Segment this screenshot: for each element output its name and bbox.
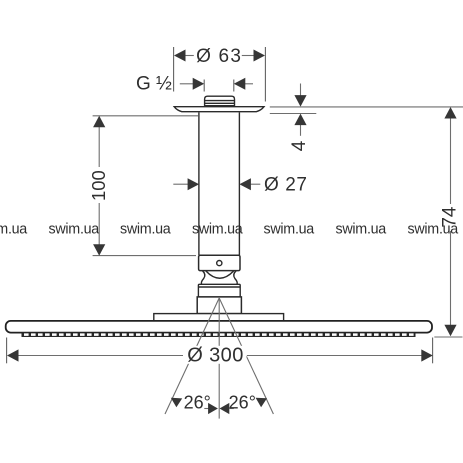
- angle 26 left inner arrow: [208, 403, 218, 414]
- svg-text:swim.ua: swim.ua: [0, 222, 27, 238]
- svg-text:Ø 27: Ø 27: [264, 175, 308, 196]
- joint collar: [198, 284, 240, 297]
- ceiling plate: [174, 107, 264, 112]
- riser pipe: [199, 112, 240, 255]
- dimension Ø63 extension line right: [264, 47, 266, 102]
- svg-text:74: 74: [439, 206, 460, 228]
- dimension Ø63 label: [196, 46, 242, 67]
- spray centre line: [218, 298, 220, 419]
- svg-text:swim.ua: swim.ua: [120, 222, 171, 238]
- svg-text:4: 4: [289, 140, 310, 151]
- dimension 74 line + arrows: [444, 107, 456, 336]
- svg-text:26°: 26°: [229, 392, 256, 412]
- dimension G1/2 tick left: [203, 80, 205, 92]
- dimension 4 extension line long (plate top): [270, 106, 463, 108]
- head mounting plate: [154, 314, 284, 322]
- thread connector stub: [204, 96, 235, 107]
- head connector box: [197, 297, 241, 314]
- dimension 100 line + arrows: [93, 116, 105, 256]
- svg-text:G ½: G ½: [136, 74, 172, 95]
- dimension Ø300 extension line left: [6, 338, 8, 364]
- shower head disc: [6, 321, 432, 333]
- svg-text:swim.ua: swim.ua: [192, 222, 243, 238]
- dimension Ø300 label: [186, 344, 247, 366]
- ball joint: [201, 271, 237, 285]
- angle 26 right leader stub: [229, 408, 234, 410]
- pipe nut box: [199, 255, 240, 270]
- dimension Ø27 arrow right: [239, 178, 260, 190]
- dimension Ø27 arrow left: [173, 178, 199, 190]
- dimension G1/2 arrow right: [234, 78, 253, 90]
- dimension G1/2 arrow left: [180, 78, 204, 90]
- dimension 100 extension line top: [93, 115, 198, 117]
- dimension 4 upper arrow: [294, 84, 306, 107]
- nut screw hole: [217, 261, 222, 266]
- dimension 4 extension line short (plate rim bottom): [270, 113, 317, 115]
- dimension Ø63 extension line left: [173, 47, 175, 92]
- dimension 74 label: [439, 206, 460, 228]
- svg-text:Ø 300: Ø 300: [187, 344, 243, 366]
- dimension G1/2 label: [136, 74, 172, 95]
- angle 26 right outer arrow: [256, 398, 267, 408]
- dimension Ø27 label: [264, 175, 308, 196]
- svg-text:Ø 63: Ø 63: [196, 46, 242, 67]
- svg-text:100: 100: [88, 170, 109, 201]
- angle 26 left outer arrow: [171, 398, 182, 408]
- spray angle line left: [165, 298, 219, 414]
- angle 26 right inner arrow: [220, 403, 230, 414]
- dimension 100 extension line bottom: [93, 255, 196, 257]
- angle 26 left leader stub: [204, 408, 208, 410]
- nozzle face strip: [22, 332, 416, 337]
- spray angle line right: [219, 298, 273, 414]
- dimension 4 label: [289, 140, 310, 151]
- svg-text:swim.ua: swim.ua: [336, 222, 387, 238]
- dimension Ø300 line + arrows: [7, 349, 433, 361]
- dimension Ø300 extension line right: [432, 338, 434, 364]
- svg-text:26°: 26°: [184, 392, 211, 412]
- watermark row swim.ua: [0, 222, 458, 238]
- dimension 100 label: [88, 170, 109, 201]
- svg-text:swim.ua: swim.ua: [49, 222, 100, 238]
- dimension 4 lower arrow: [294, 114, 306, 136]
- dimension G1/2 tick right: [233, 80, 235, 92]
- svg-text:swim.ua: swim.ua: [264, 222, 315, 238]
- dimension 74 bottom extension line: [434, 336, 462, 338]
- dimension Ø63 line + arrows: [174, 50, 265, 62]
